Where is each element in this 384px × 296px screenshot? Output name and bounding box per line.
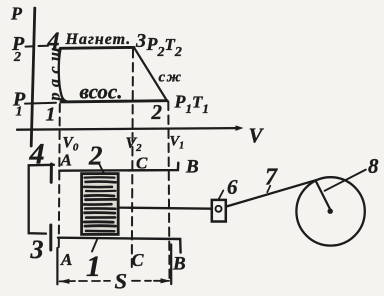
svg-text:1: 1 — [16, 105, 23, 120]
svg-text:сж: сж — [159, 70, 183, 86]
S right bar — [170, 245, 172, 285]
dashed line V1/B — [168, 102, 169, 279]
svg-text:C: C — [136, 154, 148, 173]
crank center pin — [328, 209, 333, 214]
cylinder bottom wall — [58, 238, 181, 253]
svg-text:Нагнет.: Нагнет. — [65, 31, 132, 48]
S left bar — [56, 248, 58, 284]
svg-text:7: 7 — [265, 165, 278, 191]
leader to piston bottom — [92, 239, 98, 252]
P axis (vertical) — [31, 8, 35, 146]
svg-text:3: 3 — [30, 235, 44, 264]
piston rod — [118, 208, 211, 209]
S left arrow — [60, 280, 76, 282]
svg-text:2: 2 — [13, 50, 21, 65]
S right arrow — [154, 280, 169, 282]
discharge line 4-3 (cycle top) — [60, 46, 134, 50]
crank arm — [315, 180, 330, 209]
compression line 3-2 — [134, 48, 167, 101]
connecting rod 7 — [226, 180, 315, 206]
svg-text:всос.: всос. — [80, 80, 123, 104]
leader tick 7 — [267, 186, 270, 193]
svg-text:6: 6 — [227, 175, 238, 199]
flywheel 8 — [296, 177, 364, 245]
piston hatching — [84, 177, 116, 231]
label 8 leader — [325, 170, 366, 191]
svg-text:V: V — [249, 124, 265, 148]
svg-text:A: A — [60, 250, 72, 269]
cylinder top wall — [59, 163, 178, 171]
S dim dashes — [79, 280, 151, 282]
piston body — [82, 174, 119, 235]
dashed line V0/A — [59, 104, 60, 247]
suction valve bar 4 — [50, 164, 53, 182]
svg-text:2: 2 — [151, 100, 163, 124]
leader tick 6 — [219, 191, 224, 200]
svg-text:S: S — [115, 269, 128, 294]
svg-text:B: B — [172, 254, 186, 275]
dashed line V2/C — [132, 49, 133, 267]
svg-text:расш: расш — [47, 42, 64, 102]
svg-text:B: B — [185, 157, 199, 178]
P2 tick — [26, 45, 49, 48]
axis arrowhead — [236, 125, 244, 130]
V axis (horizontal) — [17, 128, 237, 130]
svg-text:C: C — [132, 250, 145, 270]
discharge valve bar 3 — [49, 225, 52, 250]
leader to piston top — [100, 165, 104, 174]
svg-text:A: A — [60, 151, 72, 170]
crosshead 6 box — [212, 200, 226, 222]
svg-text:1: 1 — [46, 104, 56, 126]
svg-text:8: 8 — [368, 154, 379, 178]
P1 tick — [25, 102, 56, 105]
expansion line 4-1 — [59, 49, 67, 102]
pipe bracket — [29, 165, 54, 234]
svg-text:1: 1 — [86, 250, 101, 283]
crosshead pin — [216, 206, 222, 212]
svg-text:3: 3 — [135, 30, 146, 52]
suction line 1-2 (cycle bottom) — [61, 101, 167, 102]
svg-text:P: P — [10, 4, 23, 24]
